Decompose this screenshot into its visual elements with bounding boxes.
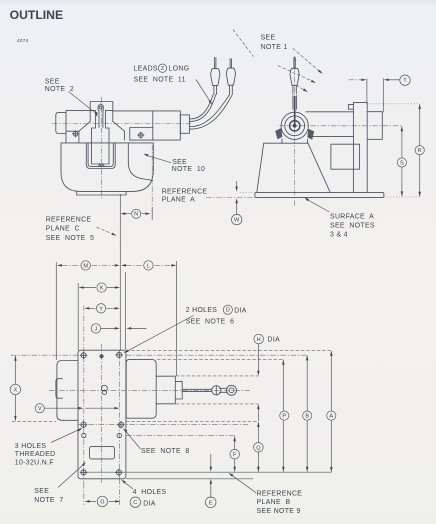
svg-text:N: N bbox=[134, 212, 138, 218]
dimension T bbox=[349, 79, 362, 81]
front view: bell housing outline bbox=[61, 143, 153, 192]
dimension G bbox=[89, 500, 115, 502]
front view: plunger lower bbox=[92, 110, 110, 164]
plan view: left bump bbox=[56, 379, 63, 399]
svg-text:P: P bbox=[282, 414, 286, 420]
front view: left flange screw bbox=[72, 131, 78, 137]
front view: tower chamfers bbox=[79, 110, 125, 142]
side view: bracket bbox=[353, 102, 367, 192]
plate hole top-right bbox=[116, 352, 123, 359]
front view: tower cap bbox=[98, 104, 103, 111]
plate hole bottom-right bbox=[116, 469, 123, 476]
svg-text:SEE NOTE 5: SEE NOTE 5 bbox=[46, 235, 95, 242]
base top dotted ext bbox=[240, 192, 255, 194]
plate hole left small bbox=[82, 433, 86, 437]
svg-text:4074: 4074 bbox=[17, 38, 29, 43]
side view: arm top bbox=[306, 111, 354, 113]
plan view: horizontal centerline bbox=[49, 389, 250, 391]
side view: boss outer circle bbox=[281, 112, 308, 139]
lead pin 2 bbox=[226, 59, 235, 95]
front view: right cavity bbox=[128, 143, 153, 181]
front view: tower (upper guide) bbox=[90, 102, 113, 111]
front view: foot plate bbox=[77, 191, 126, 195]
svg-text:SEE NOTE 8: SEE NOTE 8 bbox=[141, 448, 190, 455]
K left ext line bbox=[77, 283, 79, 351]
svg-text:E: E bbox=[209, 500, 213, 506]
plane C lower dashdot bbox=[118, 351, 120, 506]
side view: right block bbox=[367, 112, 382, 140]
svg-text:4 HOLES: 4 HOLES bbox=[133, 489, 167, 496]
plan view: clevis circle bbox=[212, 386, 221, 395]
svg-text:M: M bbox=[83, 263, 88, 269]
side view: boss middle circle bbox=[285, 116, 305, 136]
side view: right ear bbox=[307, 129, 314, 140]
plate top ext bbox=[126, 350, 331, 352]
dimension R bbox=[419, 104, 421, 196]
dimension W bbox=[236, 181, 238, 215]
svg-text:K: K bbox=[100, 286, 104, 292]
side view: bracket tab bbox=[348, 105, 353, 110]
note 6 leader bbox=[127, 316, 194, 352]
svg-text:SEE: SEE bbox=[172, 159, 187, 166]
front view: window outer bbox=[86, 143, 115, 169]
dimension Q bbox=[257, 422, 259, 472]
svg-text:NOTE 1: NOTE 1 bbox=[261, 44, 288, 51]
plan view: mounting plate bbox=[78, 350, 126, 479]
note 7 leader bbox=[58, 464, 84, 488]
note 1 dashed arrow c bbox=[296, 85, 305, 91]
svg-text:A: A bbox=[329, 414, 333, 420]
dimension S bbox=[401, 126, 403, 196]
surface A leader bbox=[307, 199, 330, 212]
dimension E bbox=[210, 454, 212, 498]
side view: left ear bbox=[275, 128, 282, 139]
svg-text:SEE NOTE 6: SEE NOTE 6 bbox=[186, 319, 235, 326]
svg-text:SEE: SEE bbox=[34, 488, 49, 495]
front view: left body block bbox=[66, 110, 90, 142]
coil top ext bbox=[157, 358, 283, 360]
dimension L bbox=[126, 264, 172, 266]
plan view: shaft bbox=[182, 389, 211, 391]
side view: vertical centerline bbox=[294, 56, 296, 206]
plate centerline vertical bbox=[101, 344, 103, 483]
svg-text:R: R bbox=[418, 148, 422, 154]
J right ext line bbox=[125, 272, 127, 350]
threaded hole row centerline bbox=[78, 424, 250, 426]
M left ext line bbox=[55, 262, 57, 360]
svg-text:SEE NOTE 9: SEE NOTE 9 bbox=[257, 508, 301, 515]
reference plane B line bbox=[80, 471, 332, 473]
left hole column centerline bbox=[83, 306, 85, 506]
svg-text:3 HOLES: 3 HOLES bbox=[15, 443, 47, 450]
dimension J bbox=[101, 327, 147, 329]
H top ext (step top) bbox=[176, 375, 258, 377]
front view: lead stub bbox=[180, 115, 189, 133]
dimension Y bbox=[89, 307, 115, 309]
reference plane A line bbox=[206, 197, 255, 199]
svg-text:SEE NOTE 11: SEE NOTE 11 bbox=[134, 77, 186, 84]
see note 2 leader bbox=[69, 92, 97, 114]
svg-text:Q: Q bbox=[256, 445, 261, 451]
svg-text:SEE NOTES: SEE NOTES bbox=[330, 223, 375, 230]
svg-text:V: V bbox=[38, 406, 42, 412]
svg-text:THREADED: THREADED bbox=[15, 451, 56, 458]
svg-text:SURFACE A: SURFACE A bbox=[330, 213, 374, 220]
svg-text:J: J bbox=[95, 326, 98, 332]
front view: vertical centerline bbox=[101, 97, 103, 199]
body bottom ext bbox=[12, 421, 258, 423]
svg-text:H: H bbox=[257, 337, 261, 343]
side view: horizontal centerline bbox=[280, 125, 402, 127]
plan view: ring bbox=[227, 385, 237, 395]
plate hole top-middle bbox=[100, 354, 104, 358]
dimension N bbox=[125, 213, 145, 215]
dimension B bbox=[306, 355, 308, 471]
svg-text:X: X bbox=[14, 388, 18, 394]
plan view: bell body bbox=[57, 361, 78, 421]
4 holes leader bbox=[123, 481, 133, 489]
plate bottom ext bbox=[126, 478, 253, 480]
side view: pedestal bbox=[282, 139, 308, 143]
note: H DIA bbox=[254, 334, 264, 344]
svg-text:S: S bbox=[400, 161, 404, 167]
see note 10 leader bbox=[147, 155, 172, 162]
svg-text:D: D bbox=[226, 308, 230, 314]
H dimension vertical bbox=[257, 344, 259, 421]
svg-text:T: T bbox=[403, 78, 407, 84]
front view: coil body bbox=[113, 111, 181, 140]
svg-text:SEE: SEE bbox=[45, 79, 60, 86]
front view: right flange step bbox=[130, 128, 153, 141]
plate screw left (threaded) bbox=[80, 421, 87, 428]
dimension X bbox=[14, 356, 16, 421]
side view: rear block bbox=[331, 144, 360, 169]
plate hole right small bbox=[117, 433, 121, 437]
plate slot rectangle bbox=[90, 447, 115, 459]
lead wire 2 bbox=[189, 95, 231, 129]
svg-text:L: L bbox=[147, 263, 150, 269]
svg-text:NOTE 10: NOTE 10 bbox=[172, 166, 205, 173]
top hole row ext bbox=[11, 354, 307, 356]
side view: lead pin bbox=[290, 58, 299, 95]
svg-text:NOTE 7: NOTE 7 bbox=[34, 497, 63, 504]
plan view: link bars bbox=[220, 388, 228, 392]
see note 5 leader bbox=[97, 227, 114, 234]
dimension M bbox=[62, 264, 114, 266]
svg-text:2 HOLES: 2 HOLES bbox=[186, 307, 218, 314]
leads leader bbox=[196, 80, 211, 103]
3 holes leader bbox=[51, 429, 80, 442]
lead pin 1 bbox=[211, 58, 220, 95]
svg-text:REFERENCE: REFERENCE bbox=[162, 189, 208, 196]
svg-text:LONG: LONG bbox=[169, 65, 190, 72]
plate hole bottom-left bbox=[80, 469, 87, 476]
svg-text:DIA: DIA bbox=[234, 307, 247, 314]
svg-text:LEADS: LEADS bbox=[134, 65, 158, 72]
reference plane C line bbox=[119, 194, 121, 350]
note 1 dashed arrow a bbox=[278, 66, 314, 82]
plate screw right (threaded) bbox=[118, 421, 125, 428]
side view: boss center bbox=[293, 124, 297, 128]
side view: wire entry bbox=[293, 96, 297, 110]
dimension A bbox=[330, 351, 332, 472]
svg-text:C: C bbox=[133, 500, 137, 506]
L right ext line bbox=[176, 261, 178, 376]
plan view: coil body bbox=[126, 359, 156, 418]
dimension P bbox=[282, 360, 284, 472]
side view: boss inner ring bbox=[290, 121, 300, 131]
note 8 leader bbox=[125, 430, 140, 449]
side view: arm bottom bbox=[309, 135, 354, 137]
R dotted ext top bbox=[368, 103, 420, 105]
svg-text:PLANE C: PLANE C bbox=[46, 226, 80, 233]
plane B leader bbox=[231, 475, 256, 493]
svg-text:NOTE 2: NOTE 2 bbox=[45, 86, 74, 93]
svg-text:REFERENCE: REFERENCE bbox=[46, 216, 92, 223]
small hole row ext bbox=[126, 435, 235, 437]
svg-text:PLANE B: PLANE B bbox=[257, 499, 291, 506]
svg-text:W: W bbox=[234, 218, 240, 224]
front view: plunger column bbox=[92, 110, 110, 142]
svg-text:10-32U.N.F: 10-32U.N.F bbox=[15, 460, 54, 467]
svg-text:B: B bbox=[305, 414, 309, 420]
svg-text:3 & 4: 3 & 4 bbox=[330, 232, 348, 239]
R ext bottom bbox=[385, 196, 420, 198]
side view: body trapezoid bbox=[257, 143, 330, 192]
dimension F bbox=[234, 436, 236, 471]
front view: horizontal centerline bbox=[52, 123, 191, 125]
dimension T ext lines bbox=[367, 79, 383, 113]
note 1 dashed arrow b bbox=[293, 48, 320, 72]
svg-text:SEE: SEE bbox=[261, 35, 276, 42]
front view: cap circle bbox=[99, 106, 102, 109]
front view: right flange screw bbox=[138, 132, 144, 138]
front view: left bump bbox=[56, 112, 66, 133]
side view: base plate bbox=[255, 192, 384, 197]
front view: window inner bbox=[88, 143, 113, 167]
svg-text:DIA: DIA bbox=[143, 500, 156, 507]
svg-text:DIA: DIA bbox=[268, 337, 281, 344]
plan view: coil step bbox=[156, 376, 175, 404]
coil centerline extension bbox=[151, 145, 153, 220]
svg-text:PLANE A: PLANE A bbox=[162, 197, 195, 204]
svg-text:OUTLINE: OUTLINE bbox=[10, 8, 64, 22]
front view: spring mark bbox=[98, 164, 104, 167]
N right ext line bbox=[151, 208, 153, 220]
svg-text:Y: Y bbox=[99, 306, 103, 312]
plan view: plunger stub bbox=[175, 381, 182, 399]
svg-text:F: F bbox=[233, 452, 237, 458]
svg-text:Z: Z bbox=[161, 66, 165, 72]
side view: wire core bbox=[294, 96, 296, 125]
plate keyhole slot bbox=[102, 385, 108, 391]
svg-text:REFERENCE: REFERENCE bbox=[257, 490, 303, 497]
plate hole top-left bbox=[80, 352, 87, 359]
note 1 dashed segment bbox=[233, 30, 254, 57]
lead wire 1 bbox=[189, 95, 215, 122]
svg-text:G: G bbox=[100, 499, 104, 505]
H bottom ext (step bottom) bbox=[176, 403, 258, 405]
dimension K bbox=[84, 287, 115, 289]
dimension V bbox=[45, 407, 115, 409]
